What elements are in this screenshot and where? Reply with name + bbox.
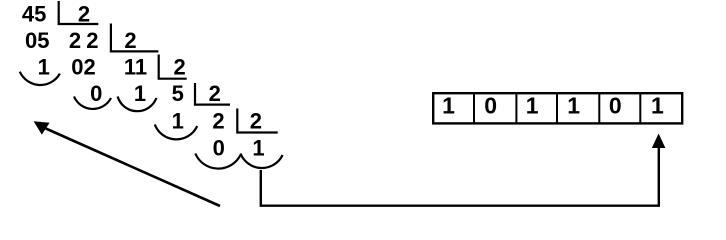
svg-text:5: 5 — [172, 81, 184, 106]
division bracket 1 — [59, 1, 99, 24]
binary result box — [433, 93, 682, 124]
svg-text:1: 1 — [651, 93, 664, 119]
arc under remainder 1 (row 3) — [20, 72, 60, 85]
connector from final quotient to box (L-shaped arrow) — [261, 134, 666, 206]
svg-text:1: 1 — [172, 108, 184, 133]
svg-text:2: 2 — [250, 108, 262, 133]
svg-text:2: 2 — [86, 28, 98, 53]
svg-text:1: 1 — [567, 93, 580, 119]
svg-text:1: 1 — [442, 93, 455, 119]
arc under remainder 0 (row 6) — [195, 154, 240, 169]
svg-text:2: 2 — [69, 28, 81, 53]
division bracket 2 — [111, 24, 158, 52]
svg-text:2: 2 — [124, 28, 136, 53]
cell divider 1 — [473, 93, 475, 123]
cell divider 2 — [515, 93, 517, 123]
svg-text:45: 45 — [22, 2, 46, 27]
svg-text:0: 0 — [90, 81, 102, 106]
arc under remainder 0 (row 4) — [74, 97, 111, 109]
svg-text:1: 1 — [252, 135, 264, 160]
svg-text:2: 2 — [212, 108, 224, 133]
division bracket 5 — [237, 109, 277, 133]
division bracket 3 — [159, 55, 187, 79]
arc under remainder 1 (row 4) — [118, 97, 157, 112]
cell divider 4 — [598, 93, 600, 123]
svg-text:2: 2 — [209, 81, 221, 106]
svg-text:2: 2 — [173, 55, 185, 80]
svg-text:2: 2 — [78, 2, 90, 27]
division bracket 4 — [195, 83, 230, 105]
cell divider 5 — [639, 93, 641, 123]
svg-text:02: 02 — [71, 55, 95, 80]
svg-text:05: 05 — [25, 28, 49, 53]
svg-text:1: 1 — [526, 93, 539, 119]
svg-text:0: 0 — [213, 135, 225, 160]
reading-direction arrow (diagonal, points up-left) — [34, 121, 220, 206]
svg-text:0: 0 — [484, 93, 497, 119]
svg-text:0: 0 — [609, 93, 622, 119]
arc under final quotient 1 (row 6) — [241, 154, 283, 169]
svg-text:11: 11 — [124, 55, 147, 80]
svg-text:1: 1 — [134, 81, 146, 106]
cell divider 3 — [556, 93, 558, 123]
svg-text:1: 1 — [38, 55, 50, 80]
arc under remainder 1 (row 5) — [155, 125, 197, 140]
